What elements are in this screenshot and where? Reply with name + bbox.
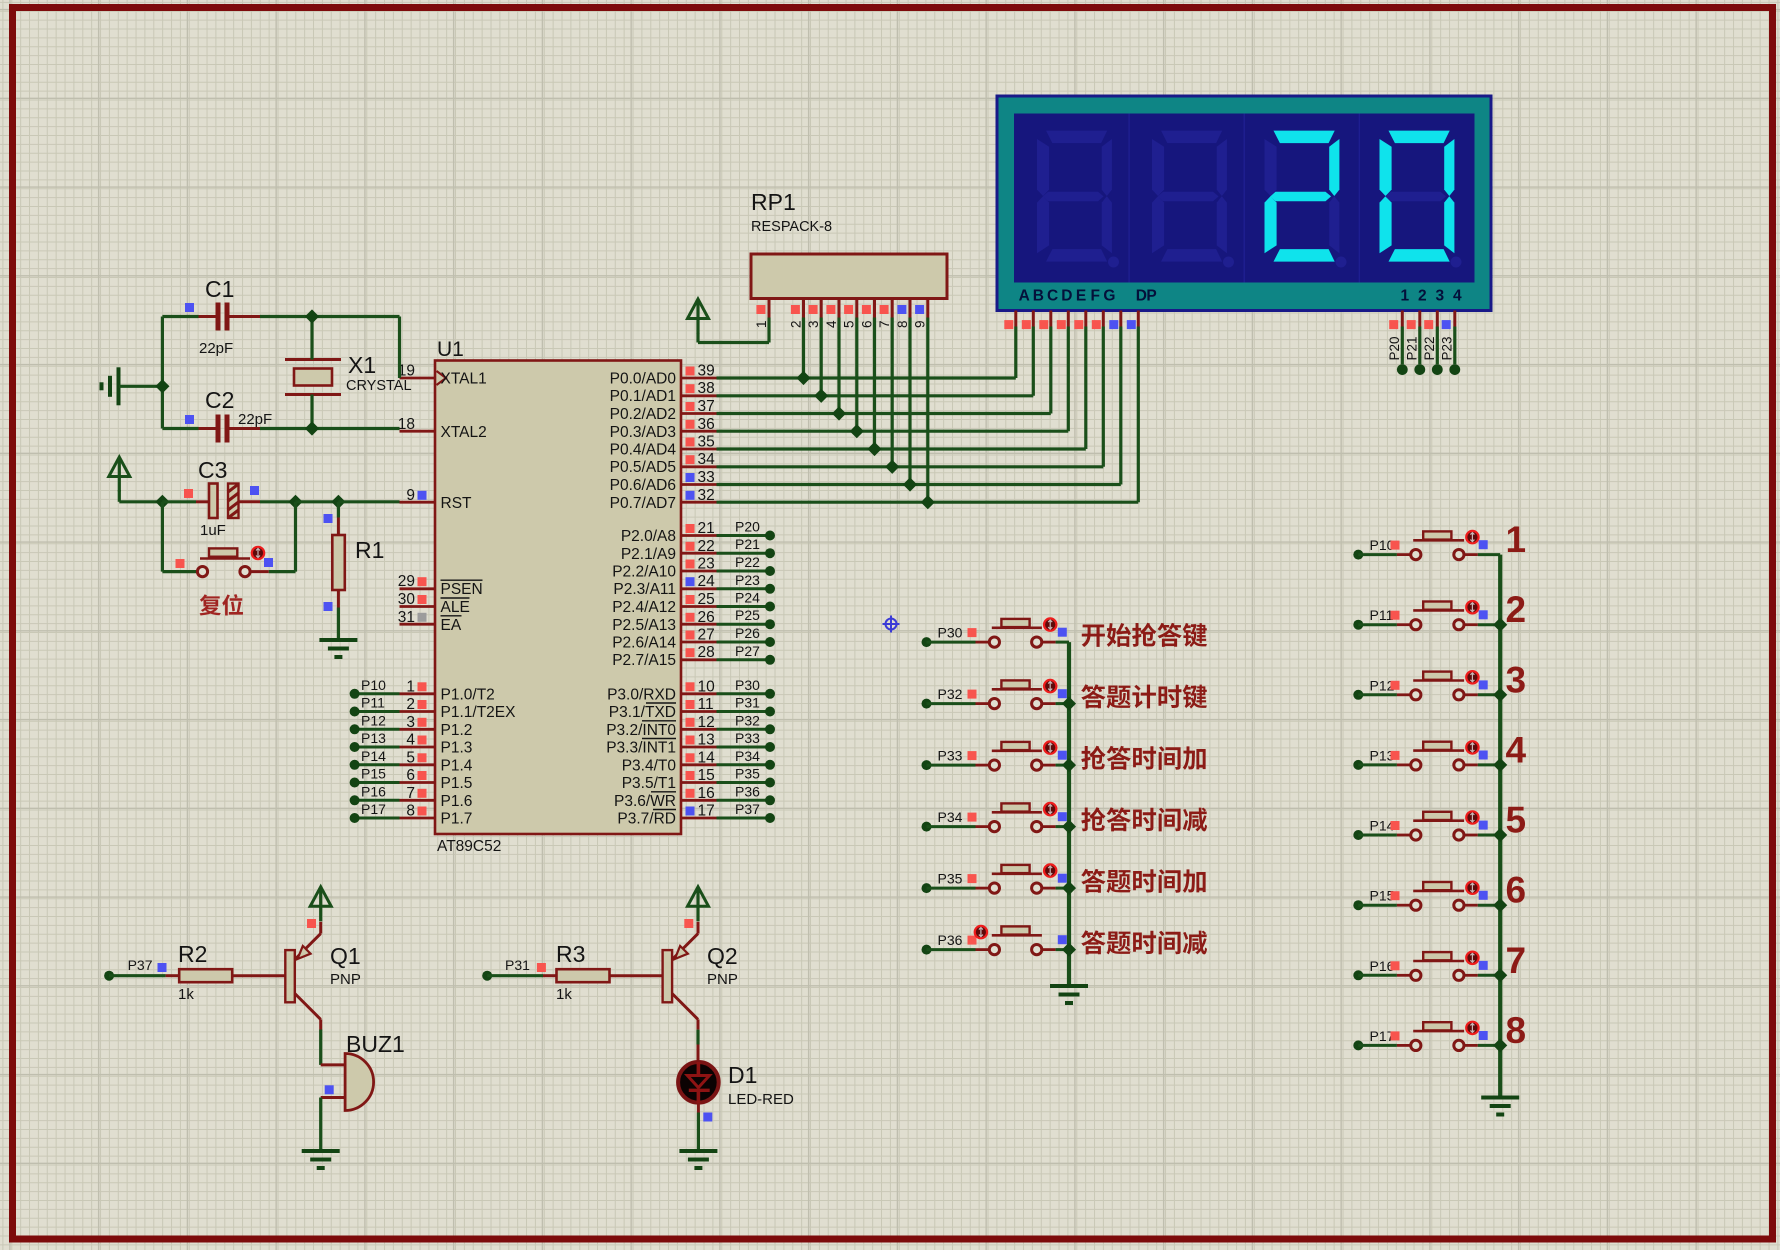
U1 left pins: XTAL1(19), XTAL2(18), RST(9), PSEN(29), ALE(30), EA(31), P1.0-P1.7 (1-8) <box>400 377 436 380</box>
svg-text:P26: P26 <box>735 625 760 641</box>
svg-text:P11: P11 <box>1370 607 1394 623</box>
svg-text:R3: R3 <box>556 941 585 967</box>
svg-text:1: 1 <box>1400 288 1409 305</box>
svg-text:1: 1 <box>406 678 415 695</box>
svg-text:P3.4/T0: P3.4/T0 <box>622 757 677 774</box>
svg-text:7: 7 <box>406 785 415 802</box>
svg-text:3: 3 <box>1435 288 1444 305</box>
svg-text:P0.2/AD2: P0.2/AD2 <box>610 406 676 423</box>
svg-text:P23: P23 <box>1439 336 1454 360</box>
svg-text:PNP: PNP <box>707 971 738 988</box>
svg-text:P1.6: P1.6 <box>441 793 473 810</box>
node: button bus junction <box>1062 697 1076 711</box>
push button P30 (开始抢答键) <box>922 637 932 647</box>
svg-text:P0.6/AD6: P0.6/AD6 <box>610 477 676 494</box>
svg-text:Q2: Q2 <box>707 943 738 969</box>
svg-text:P2.0/A8: P2.0/A8 <box>621 528 676 545</box>
svg-text:P0.3/AD3: P0.3/AD3 <box>610 424 676 441</box>
svg-text:E: E <box>1076 288 1086 305</box>
svg-text:P37: P37 <box>735 801 760 817</box>
ground (left of crystal caps) <box>117 367 121 405</box>
svg-text:15: 15 <box>698 767 715 784</box>
svg-text:A: A <box>1019 288 1030 305</box>
svg-text:P23: P23 <box>735 572 760 588</box>
svg-text:P32: P32 <box>938 686 963 702</box>
svg-text:34: 34 <box>698 451 716 468</box>
svg-text:R1: R1 <box>355 537 384 563</box>
svg-text:1: 1 <box>754 320 769 328</box>
svg-text:3: 3 <box>806 320 821 328</box>
nets P30-P37 terminals <box>717 692 771 695</box>
svg-text:8: 8 <box>406 803 415 820</box>
middle bus wire <box>1067 642 1071 986</box>
ground (D1) <box>679 1149 717 1153</box>
svg-text:12: 12 <box>698 714 715 731</box>
svg-text:P3.5/T1: P3.5/T1 <box>622 775 676 792</box>
svg-text:6: 6 <box>1506 870 1527 911</box>
svg-text:4: 4 <box>406 732 415 749</box>
push button P11 (contestant 2) <box>1353 620 1363 630</box>
svg-text:18: 18 <box>398 416 415 433</box>
ground (middle buttons) <box>1050 984 1088 988</box>
svg-text:4: 4 <box>1506 729 1527 770</box>
push button P10 (contestant 1) <box>1353 550 1363 560</box>
svg-text:1k: 1k <box>556 986 572 1003</box>
svg-text:C1: C1 <box>205 276 234 302</box>
node: contestant bus junction <box>1493 898 1507 912</box>
resistor R1 <box>337 502 340 518</box>
svg-text:23: 23 <box>698 556 715 573</box>
svg-text:P2.5/A13: P2.5/A13 <box>612 617 676 634</box>
svg-text:1uF: 1uF <box>200 522 226 539</box>
transistor Q2 PNP <box>663 950 673 1002</box>
power +5V arrow (Q2 emitter) <box>688 887 709 907</box>
push button P35 (答题时间加) <box>922 883 932 893</box>
svg-text:5: 5 <box>406 749 415 766</box>
svg-text:1k: 1k <box>178 986 194 1003</box>
svg-text:P2.1/A9: P2.1/A9 <box>621 546 676 563</box>
svg-text:26: 26 <box>698 609 715 626</box>
LED D1 LED-RED <box>696 1030 699 1045</box>
svg-text:37: 37 <box>698 398 715 415</box>
svg-text:39: 39 <box>698 363 715 380</box>
svg-text:P3.2/INT0: P3.2/INT0 <box>606 722 676 739</box>
display select pins P20-P23 <box>1401 311 1404 327</box>
svg-text:13: 13 <box>698 732 715 749</box>
svg-text:P0.5/AD5: P0.5/AD5 <box>610 459 676 476</box>
svg-text:22: 22 <box>698 538 715 555</box>
svg-text:P22: P22 <box>1422 336 1437 360</box>
microcontroller U1 <box>435 361 681 835</box>
node: button bus junction <box>1062 758 1076 772</box>
node: RP1 pin3 junction <box>814 389 828 403</box>
U1 right pins: P0 (39-32), P2 (21-28), P3 (10-17) <box>681 377 717 380</box>
svg-text:P27: P27 <box>735 643 760 659</box>
svg-text:AT89C52: AT89C52 <box>437 838 501 855</box>
svg-text:P1.1/T2EX: P1.1/T2EX <box>441 704 517 721</box>
svg-text:P1.7: P1.7 <box>441 811 473 828</box>
RP1 pull-up wires to P0 bus <box>802 318 805 379</box>
push button P32 (答题计时键) <box>922 699 932 709</box>
svg-text:9: 9 <box>913 320 928 328</box>
svg-text:P10: P10 <box>361 677 386 693</box>
node: RP1 pin4 junction <box>832 406 846 420</box>
resistor R3 1k <box>543 974 557 977</box>
svg-text:22pF: 22pF <box>238 411 272 428</box>
4-digit 7-segment display <box>997 96 1491 311</box>
svg-text:8: 8 <box>895 320 910 328</box>
svg-text:25: 25 <box>698 591 715 608</box>
svg-text:C3: C3 <box>198 457 227 483</box>
svg-text:P20: P20 <box>735 519 760 535</box>
svg-text:2: 2 <box>406 696 415 713</box>
node: RP1 pin9 junction <box>921 495 935 509</box>
svg-text:16: 16 <box>698 785 715 802</box>
node: button bus junction <box>1062 881 1076 895</box>
svg-text:5: 5 <box>1506 800 1527 841</box>
svg-text:P0.4/AD4: P0.4/AD4 <box>610 442 677 459</box>
svg-text:G: G <box>1103 288 1115 305</box>
svg-text:F: F <box>1090 288 1099 305</box>
node: button bus junction <box>1062 820 1076 834</box>
svg-text:X1: X1 <box>348 352 376 378</box>
svg-text:27: 27 <box>698 627 715 644</box>
node: RP1 pin2 junction <box>796 371 810 385</box>
svg-text:2: 2 <box>788 320 803 328</box>
svg-text:P36: P36 <box>938 932 963 948</box>
svg-text:BUZ1: BUZ1 <box>346 1031 405 1057</box>
svg-text:EA: EA <box>441 617 462 634</box>
svg-text:RP1: RP1 <box>751 189 796 215</box>
svg-text:P25: P25 <box>735 607 760 623</box>
svg-text:P3.3/INT1: P3.3/INT1 <box>606 740 676 757</box>
node: RST rail junction <box>155 495 169 509</box>
svg-text:U1: U1 <box>437 338 464 361</box>
svg-text:2: 2 <box>1418 288 1427 305</box>
nets P20-P27 terminals <box>717 534 771 537</box>
svg-text:7: 7 <box>1506 940 1527 981</box>
svg-text:4: 4 <box>1453 288 1462 305</box>
svg-text:P3.0/RXD: P3.0/RXD <box>607 686 676 703</box>
display digit cell <box>1037 131 1112 262</box>
terminal P37 <box>104 971 114 981</box>
svg-text:7: 7 <box>877 320 892 328</box>
svg-text:P33: P33 <box>735 730 760 746</box>
svg-text:6: 6 <box>859 320 874 328</box>
ground (contestant buttons) <box>1481 1096 1519 1100</box>
node: contestant bus junction <box>1493 968 1507 982</box>
svg-text:10: 10 <box>698 678 716 695</box>
svg-text:22pF: 22pF <box>199 340 233 357</box>
node: contestant bus junction <box>1493 618 1507 632</box>
svg-text:P1.4: P1.4 <box>441 757 473 774</box>
capacitor C1 22pF <box>162 315 198 318</box>
push button P17 (contestant 8) <box>1353 1040 1363 1050</box>
node: RP1 pin7 junction <box>885 460 899 474</box>
svg-text:P1.2: P1.2 <box>441 722 473 739</box>
svg-text:35: 35 <box>698 434 715 451</box>
svg-text:P34: P34 <box>938 809 963 825</box>
node: contestant bus junction <box>1493 758 1507 772</box>
display digit cell <box>1152 131 1227 262</box>
svg-text:P21: P21 <box>1404 336 1419 360</box>
push button P13 (contestant 4) <box>1353 760 1363 770</box>
svg-text:P2.7/A15: P2.7/A15 <box>612 652 676 669</box>
node: contestant bus junction <box>1493 688 1507 702</box>
svg-text:P31: P31 <box>735 695 760 711</box>
svg-text:P2.2/A10: P2.2/A10 <box>612 564 676 581</box>
svg-text:P11: P11 <box>361 695 385 711</box>
svg-text:D1: D1 <box>728 1062 757 1088</box>
svg-text:P2.3/A11: P2.3/A11 <box>613 581 676 598</box>
left rail wire <box>161 317 164 429</box>
display digit cell <box>1380 131 1455 262</box>
svg-text:XTAL2: XTAL2 <box>441 424 487 441</box>
svg-text:P1.0/T2: P1.0/T2 <box>441 686 495 703</box>
node: RP1 pin8 junction <box>903 477 917 491</box>
svg-text:31: 31 <box>398 609 415 626</box>
svg-text:P35: P35 <box>735 766 760 782</box>
svg-text:P0.1/AD1: P0.1/AD1 <box>610 388 676 405</box>
svg-text:RST: RST <box>441 495 473 512</box>
svg-text:XTAL1: XTAL1 <box>441 371 487 388</box>
svg-text:4: 4 <box>824 320 839 328</box>
svg-text:36: 36 <box>698 416 715 433</box>
svg-text:P16: P16 <box>361 783 386 799</box>
svg-text:P0.7/AD7: P0.7/AD7 <box>610 495 676 512</box>
svg-text:3: 3 <box>1506 659 1527 700</box>
svg-text:P36: P36 <box>735 783 760 799</box>
push button P16 (contestant 7) <box>1353 970 1363 980</box>
node: C2/XTAL2 junction <box>305 421 319 435</box>
power +5V arrow (RP1 pin1) <box>688 299 709 319</box>
resistor R2 1k <box>166 974 180 977</box>
svg-text:LED-RED: LED-RED <box>728 1091 794 1108</box>
svg-text:P33: P33 <box>938 748 963 764</box>
node: C1/XTAL1 junction <box>305 309 319 323</box>
svg-text:P22: P22 <box>735 554 760 570</box>
svg-text:38: 38 <box>698 380 715 397</box>
svg-text:C2: C2 <box>205 387 234 413</box>
svg-text:P15: P15 <box>361 766 386 782</box>
svg-text:P37: P37 <box>128 957 153 973</box>
svg-text:P30: P30 <box>735 677 760 693</box>
svg-text:Q1: Q1 <box>330 943 361 969</box>
svg-text:B: B <box>1033 288 1044 305</box>
push button P14 (contestant 5) <box>1353 830 1363 840</box>
node: RP1 pin6 junction <box>867 442 881 456</box>
svg-text:11: 11 <box>698 696 714 713</box>
power +5V arrow (reset) <box>109 457 130 477</box>
node: contestant bus junction <box>1493 828 1507 842</box>
svg-text:P1.3: P1.3 <box>441 740 473 757</box>
svg-text:P24: P24 <box>735 590 760 606</box>
svg-text:32: 32 <box>698 487 715 504</box>
svg-text:21: 21 <box>698 520 715 537</box>
svg-text:PSEN: PSEN <box>441 581 483 598</box>
svg-text:2: 2 <box>1506 589 1527 630</box>
nets P10-P17 terminals <box>355 692 400 695</box>
svg-text:P30: P30 <box>938 625 963 641</box>
svg-text:P2.6/A14: P2.6/A14 <box>612 635 676 652</box>
svg-text:P14: P14 <box>361 748 386 764</box>
svg-text:P0.0/AD0: P0.0/AD0 <box>610 371 677 388</box>
power +5V arrow (Q1 emitter) <box>310 887 331 907</box>
svg-text:P12: P12 <box>361 712 386 728</box>
cursor crosshair marker <box>883 616 900 633</box>
svg-text:P3.6/WR: P3.6/WR <box>614 793 676 810</box>
push button P15 (contestant 6) <box>1353 900 1363 910</box>
terminal P31 <box>482 971 492 981</box>
push button P36 (答题时间减) <box>922 945 932 955</box>
svg-text:ALE: ALE <box>441 599 470 616</box>
node: ground tap junction <box>155 379 169 393</box>
svg-text:3: 3 <box>406 714 415 731</box>
RP1 pins 1-9 <box>768 298 771 318</box>
capacitor C3 1uF <box>162 500 196 503</box>
svg-text:14: 14 <box>698 749 716 766</box>
svg-text:P3.1/TXD: P3.1/TXD <box>609 704 676 721</box>
node: RP1 pin5 junction <box>850 424 864 438</box>
svg-text:17: 17 <box>698 803 715 820</box>
svg-text:PNP: PNP <box>330 971 361 988</box>
svg-text:9: 9 <box>406 487 415 504</box>
svg-text:P17: P17 <box>361 801 386 817</box>
node: R1 junction <box>331 495 345 509</box>
svg-text:24: 24 <box>698 573 716 590</box>
svg-text:6: 6 <box>406 767 415 784</box>
svg-text:5: 5 <box>842 320 857 328</box>
svg-text:RESPACK-8: RESPACK-8 <box>751 219 832 235</box>
svg-text:R2: R2 <box>178 941 207 967</box>
node: button bus junction <box>1062 943 1076 957</box>
svg-text:P35: P35 <box>938 871 963 887</box>
wire XTAL1 <box>398 317 401 379</box>
svg-text:P1.5: P1.5 <box>441 775 473 792</box>
node: button right rail junction <box>288 495 302 509</box>
svg-text:P20: P20 <box>1387 336 1402 360</box>
svg-text:28: 28 <box>698 644 715 661</box>
svg-text:CRYSTAL: CRYSTAL <box>346 378 412 394</box>
svg-text:P2.4/A12: P2.4/A12 <box>612 599 676 616</box>
P0 bus wires from U1 to display segment pins <box>717 376 1016 379</box>
svg-text:P34: P34 <box>735 748 760 764</box>
svg-text:P21: P21 <box>735 536 760 552</box>
ground (BUZ1) <box>302 1149 340 1153</box>
svg-text:33: 33 <box>698 469 715 486</box>
reset button (labeled 复位) <box>161 502 164 572</box>
svg-text:C: C <box>1047 288 1058 305</box>
resistor pack RP1 RESPACK-8 <box>751 254 947 299</box>
display pins A-G,DP <box>1014 311 1017 327</box>
svg-text:DP: DP <box>1136 288 1157 305</box>
display digit cell <box>1265 131 1340 262</box>
ground (below R1) <box>319 638 357 642</box>
push button P12 (contestant 3) <box>1353 690 1363 700</box>
svg-text:P31: P31 <box>505 957 530 973</box>
svg-text:D: D <box>1061 288 1072 305</box>
node: contestant bus junction <box>1493 1038 1507 1052</box>
svg-text:29: 29 <box>398 573 415 590</box>
svg-text:30: 30 <box>398 591 416 608</box>
push button P34 (抢答时间减) <box>922 822 932 832</box>
transistor Q1 PNP <box>285 950 295 1002</box>
wire crystal to C1/C2 rails <box>310 317 313 360</box>
svg-text:P32: P32 <box>735 712 760 728</box>
svg-text:1: 1 <box>1506 519 1527 560</box>
push button P33 (抢答时间加) <box>922 760 932 770</box>
svg-text:8: 8 <box>1506 1010 1527 1051</box>
capacitor C2 22pF <box>162 427 198 430</box>
right bus wire <box>1498 555 1502 1098</box>
svg-text:P3.7/RD: P3.7/RD <box>617 811 676 828</box>
crystal X1 <box>285 358 341 361</box>
svg-text:P13: P13 <box>361 730 386 746</box>
buzzer BUZ1 <box>319 1030 322 1065</box>
